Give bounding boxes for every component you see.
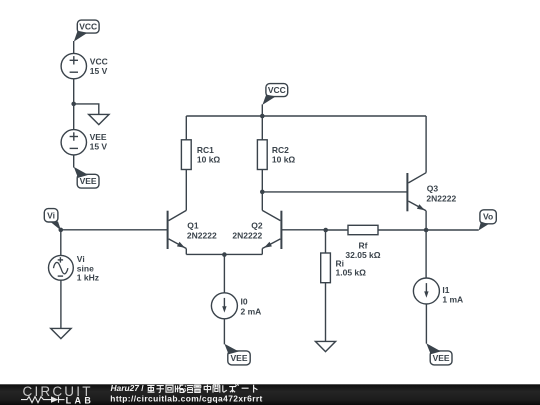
svg-text:10 kΩ: 10 kΩ — [272, 155, 296, 165]
svg-text:Vo: Vo — [483, 212, 493, 222]
svg-text:Haru27 /: Haru27 / — [111, 383, 145, 393]
svg-text:1.05 kΩ: 1.05 kΩ — [336, 268, 367, 278]
svg-text:VEE: VEE — [230, 353, 247, 363]
svg-text:VEE: VEE — [80, 176, 97, 186]
svg-text:1 mA: 1 mA — [442, 295, 463, 305]
svg-text:2N2222: 2N2222 — [187, 231, 217, 241]
svg-text:2N2222: 2N2222 — [426, 194, 456, 204]
svg-text:Q3: Q3 — [427, 184, 439, 194]
svg-text:Rf: Rf — [359, 241, 368, 251]
svg-text:2 mA: 2 mA — [241, 306, 262, 316]
svg-text:VCC: VCC — [79, 21, 97, 31]
svg-text:http://circuitlab.com/cgqa472x: http://circuitlab.com/cgqa472xr6rrt — [110, 393, 262, 403]
svg-text:VEE: VEE — [433, 353, 450, 363]
svg-text:LAB: LAB — [66, 395, 95, 405]
svg-text:10 kΩ: 10 kΩ — [197, 155, 221, 165]
svg-text:Q1: Q1 — [187, 220, 199, 230]
svg-text:Vi: Vi — [47, 210, 55, 220]
svg-text:I1: I1 — [442, 285, 449, 295]
svg-text:32.05 kΩ: 32.05 kΩ — [345, 250, 380, 260]
svg-text:RC2: RC2 — [272, 145, 289, 155]
svg-text:15 V: 15 V — [90, 66, 108, 76]
svg-text:I0: I0 — [241, 297, 248, 307]
svg-text:Q2: Q2 — [251, 220, 263, 230]
svg-text:VCC: VCC — [268, 85, 286, 95]
svg-text:15 V: 15 V — [90, 141, 108, 151]
svg-text:2N2222: 2N2222 — [232, 231, 262, 241]
svg-text:1 kHz: 1 kHz — [77, 273, 99, 283]
svg-text:RC1: RC1 — [197, 145, 214, 155]
